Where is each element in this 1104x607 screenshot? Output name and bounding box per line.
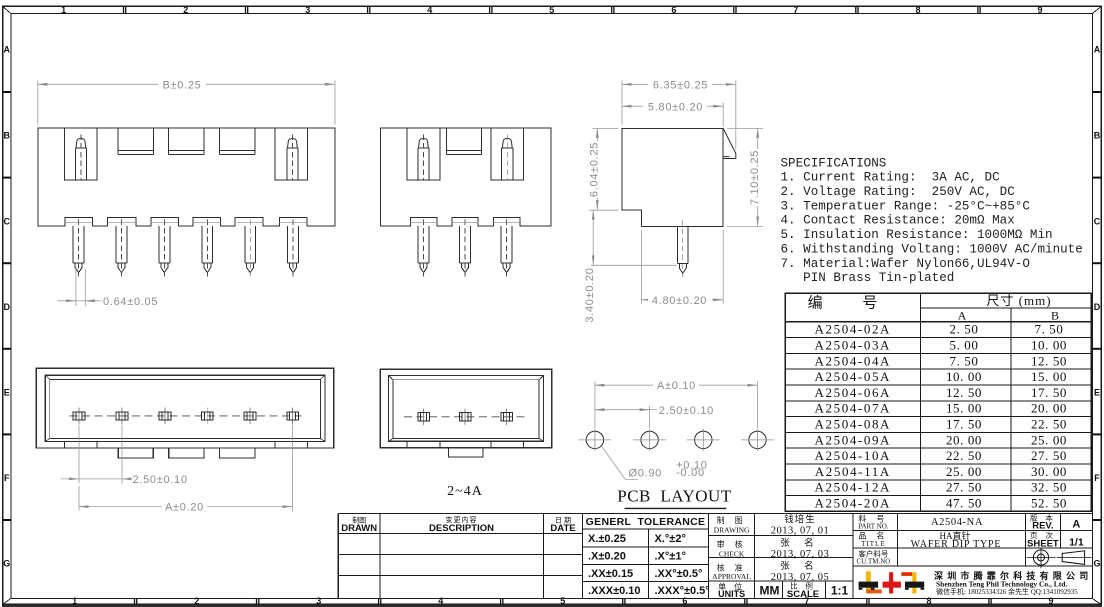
part-number section labels xyxy=(856,514,890,566)
svg-text:2. Voltage Rating: 250V AC, D: 2. Voltage Rating: 250V AC, DC xyxy=(781,185,1016,199)
svg-text:-0.00: -0.00 xyxy=(676,467,705,479)
svg-text:3. Temperatuer Range: -25°C~+8: 3. Temperatuer Range: -25°C~+85°C xyxy=(781,199,1031,213)
view 2 pins in slots xyxy=(418,135,429,181)
svg-text:B±0.25: B±0.25 xyxy=(163,80,202,92)
svg-text:编 号: 编 号 xyxy=(808,295,896,312)
svg-text:X.±0.25: X.±0.25 xyxy=(588,533,626,545)
svg-text:8: 8 xyxy=(915,5,920,15)
svg-text:6.35±0.25: 6.35±0.25 xyxy=(653,80,708,92)
svg-text:张 名: 张 名 xyxy=(780,537,819,549)
svg-text:A2504-03A: A2504-03A xyxy=(815,338,892,353)
dimension 3.40±0.20 (left vertical lower) xyxy=(591,210,677,265)
svg-text:DRAWN: DRAWN xyxy=(341,523,377,534)
svg-text:22. 50: 22. 50 xyxy=(946,448,982,463)
projection symbol cone xyxy=(1062,551,1084,565)
svg-text:52. 50: 52. 50 xyxy=(1031,496,1067,511)
svg-text:1/1: 1/1 xyxy=(1069,536,1084,548)
view 3 latch hook xyxy=(723,128,736,158)
svg-text:钱培生: 钱培生 xyxy=(784,514,816,526)
svg-text:A2504-06A: A2504-06A xyxy=(815,385,892,400)
svg-text:0.64±0.05: 0.64±0.05 xyxy=(103,296,158,308)
view 1 pin shoulder lines xyxy=(65,222,307,224)
view 5 pin cross-sections xyxy=(418,409,430,426)
svg-text:.XXX°±0.5°: .XXX°±0.5° xyxy=(655,585,710,597)
view 1 bottom pins xyxy=(73,219,84,276)
svg-text:A2504-08A: A2504-08A xyxy=(815,417,892,432)
svg-text:X.°±2°: X.°±2° xyxy=(655,533,686,545)
svg-text:PCB LAYOUT: PCB LAYOUT xyxy=(617,486,732,505)
svg-text:APPROVAL: APPROVAL xyxy=(712,572,751,581)
svg-text:2.50±0.10: 2.50±0.10 xyxy=(659,405,714,417)
svg-text:SHEET: SHEET xyxy=(1027,539,1059,550)
middle label column xyxy=(712,515,751,599)
svg-text:2~4A: 2~4A xyxy=(447,484,483,499)
svg-text:12. 50: 12. 50 xyxy=(1031,353,1067,368)
svg-text:CHECK: CHECK xyxy=(719,549,745,558)
dimension 7.10±0.25 (right vertical) xyxy=(727,128,763,226)
svg-text:5: 5 xyxy=(560,596,565,606)
svg-text:7. 50: 7. 50 xyxy=(950,353,979,368)
view 1: connector front view (6-pin) body xyxy=(38,128,335,226)
svg-text:A±0.10: A±0.10 xyxy=(657,380,696,392)
svg-text:32. 50: 32. 50 xyxy=(1031,480,1067,495)
dimension 2.50±0.10 (PCB) xyxy=(595,406,657,428)
svg-text:A±0.20: A±0.20 xyxy=(165,502,204,514)
svg-text:TITLE: TITLE xyxy=(861,540,885,548)
svg-text:20. 00: 20. 00 xyxy=(1031,401,1067,416)
svg-text:WAFER DIP TYPE: WAFER DIP TYPE xyxy=(911,539,1002,550)
svg-text:5. 00: 5. 00 xyxy=(950,338,979,353)
svg-text:1: 1 xyxy=(72,596,77,606)
svg-text:B: B xyxy=(1051,309,1059,323)
dimension 2.50±0.10 (view 4) xyxy=(61,425,132,484)
svg-text:B: B xyxy=(4,130,11,140)
dimension A±0.10 (PCB) xyxy=(595,382,758,429)
svg-text:A2504-09A: A2504-09A xyxy=(815,432,892,447)
svg-text:DESCRIPTION: DESCRIPTION xyxy=(429,523,494,534)
svg-text:B: B xyxy=(1094,130,1101,140)
svg-text:REV.: REV. xyxy=(1032,521,1053,532)
view 2 slot left xyxy=(407,128,440,180)
svg-text:15. 00: 15. 00 xyxy=(946,401,982,416)
svg-text:.X°±1°: .X°±1° xyxy=(655,551,686,563)
view 4 pin cross-sections xyxy=(73,408,85,425)
svg-text:4. Contact Resistance: 20mΩ Ma: 4. Contact Resistance: 20mΩ Max xyxy=(781,214,1015,228)
svg-text:A: A xyxy=(1072,518,1080,530)
svg-text:6.04±0.25: 6.04±0.25 xyxy=(589,142,601,197)
svg-text:微信手机: 18025334326 余先生 QQ:13410: 微信手机: 18025334326 余先生 QQ:1341092935 xyxy=(936,587,1078,596)
view 1 slot left xyxy=(65,128,98,180)
dimension 5.80±0.20 xyxy=(622,103,723,127)
svg-text:A2504-10A: A2504-10A xyxy=(815,448,892,463)
svg-text:A2504-02A: A2504-02A xyxy=(815,322,892,337)
tolerance values xyxy=(588,533,710,597)
part-number values xyxy=(911,517,1002,550)
svg-text:A2504-12A: A2504-12A xyxy=(815,480,892,495)
view 2 slot right xyxy=(491,128,524,180)
svg-text:9: 9 xyxy=(1048,596,1053,606)
svg-text:25. 00: 25. 00 xyxy=(946,464,982,479)
names and dates xyxy=(771,514,830,584)
title block grid xyxy=(338,514,1092,599)
svg-text:1. Current Rating: 3A AC, DC: 1. Current Rating: 3A AC, DC xyxy=(781,171,1001,185)
svg-text:7. Material:Wafer Nylon66,UL94: 7. Material:Wafer Nylon66,UL94V-O xyxy=(781,257,1030,271)
svg-text:.XX°±0.5°: .XX°±0.5° xyxy=(655,568,703,580)
svg-text:7: 7 xyxy=(793,5,798,15)
svg-text:A2504-04A: A2504-04A xyxy=(815,353,892,368)
svg-text:7.10±0.25: 7.10±0.25 xyxy=(749,150,761,205)
svg-text:5: 5 xyxy=(549,5,554,15)
svg-text:PIN Brass Tin-plated: PIN Brass Tin-plated xyxy=(781,271,955,285)
view 1 slot right xyxy=(275,128,308,180)
svg-text:.XX±0.15: .XX±0.15 xyxy=(588,568,633,580)
svg-text:15. 00: 15. 00 xyxy=(1031,369,1067,384)
svg-text:3: 3 xyxy=(316,596,321,606)
svg-text:CU.TM.NO: CU.TM.NO xyxy=(856,558,890,566)
svg-text:UNITS: UNITS xyxy=(718,589,745,599)
dimension B±0.25 xyxy=(38,81,335,125)
svg-text:2. 50: 2. 50 xyxy=(950,322,979,337)
company logo xyxy=(859,571,925,593)
svg-text:27. 50: 27. 50 xyxy=(1031,448,1067,463)
svg-text:PART NO.: PART NO. xyxy=(858,523,889,531)
svg-text:SPECIFICATIONS: SPECIFICATIONS xyxy=(781,156,887,170)
svg-text:1: 1 xyxy=(61,5,66,15)
svg-text:尺寸 (mm): 尺寸 (mm) xyxy=(986,293,1051,308)
units scale row xyxy=(760,581,849,600)
svg-text:6: 6 xyxy=(682,596,687,606)
svg-text:A: A xyxy=(4,44,11,54)
svg-text:10. 00: 10. 00 xyxy=(1031,338,1067,353)
svg-text:3: 3 xyxy=(305,5,310,15)
hole diameter leader Ø0.90 xyxy=(602,447,638,480)
svg-text:A2504-07A: A2504-07A xyxy=(815,401,892,416)
svg-text:品 名: 品 名 xyxy=(858,531,888,541)
svg-text:张 名: 张 名 xyxy=(780,560,819,572)
svg-text:2013, 07, 03: 2013, 07, 03 xyxy=(771,549,830,560)
svg-text:D: D xyxy=(4,302,11,312)
svg-text:.X±0.20: .X±0.20 xyxy=(588,551,626,563)
svg-text:1:1: 1:1 xyxy=(831,583,849,597)
svg-text:5. Insulation Resistance: 1000: 5. Insulation Resistance: 1000MΩ Min xyxy=(781,228,1053,242)
svg-text:A2504-NA: A2504-NA xyxy=(931,517,983,528)
svg-text:A2504-11A: A2504-11A xyxy=(815,464,891,479)
svg-text:2.50±0.10: 2.50±0.10 xyxy=(133,474,188,486)
svg-text:F: F xyxy=(1094,473,1100,483)
rev / sheet labels xyxy=(1027,513,1084,550)
view 3 pin xyxy=(677,220,688,277)
PCB layout holes xyxy=(586,431,766,448)
svg-text:GENERL TOLERANCE: GENERL TOLERANCE xyxy=(586,516,706,528)
dimension A±0.20 (view 4) xyxy=(79,425,293,512)
svg-text:A: A xyxy=(1094,44,1101,54)
SPECIFICATIONS text block xyxy=(781,156,1083,285)
svg-text:6. Withstanding Voltang: 1000V: 6. Withstanding Voltang: 1000V AC/minute xyxy=(781,242,1083,256)
svg-text:3.40±0.20: 3.40±0.20 xyxy=(584,267,596,322)
svg-text:C: C xyxy=(1094,216,1101,226)
svg-text:MM: MM xyxy=(760,583,780,597)
svg-text:6: 6 xyxy=(671,5,676,15)
view 5: bottom view (3-pin) xyxy=(380,369,551,456)
svg-text:C: C xyxy=(4,216,11,226)
svg-text:8: 8 xyxy=(926,596,931,606)
svg-text:20. 00: 20. 00 xyxy=(946,432,982,447)
svg-text:2: 2 xyxy=(183,5,188,15)
view 1 latch windows xyxy=(118,128,153,155)
svg-text:4: 4 xyxy=(438,596,443,606)
svg-text:5.80±0.20: 5.80±0.20 xyxy=(648,102,703,114)
view 2 latch window xyxy=(446,128,481,155)
svg-text:22. 50: 22. 50 xyxy=(1031,417,1067,432)
view 2: connector front view (3-pin) body xyxy=(381,128,551,226)
svg-text:A2504-05A: A2504-05A xyxy=(815,369,892,384)
svg-text:A2504-20A: A2504-20A xyxy=(815,496,892,511)
view 4: bottom view (6-pin) xyxy=(36,368,333,457)
svg-text:DRAWING: DRAWING xyxy=(714,525,750,534)
svg-text:DATE: DATE xyxy=(550,523,575,534)
third-angle projection symbol circle xyxy=(1027,548,1092,568)
svg-text:审 核: 审 核 xyxy=(717,539,747,549)
dimension 6.04±0.25 (left vertical) xyxy=(589,128,619,210)
svg-text:7. 50: 7. 50 xyxy=(1035,322,1064,337)
view 4 center dashed line xyxy=(70,415,302,417)
svg-text:D: D xyxy=(1094,302,1101,312)
svg-text:G: G xyxy=(1093,558,1100,568)
svg-text:30. 00: 30. 00 xyxy=(1031,464,1067,479)
svg-text:E: E xyxy=(4,387,10,397)
company name xyxy=(934,570,1092,596)
svg-text:2: 2 xyxy=(194,596,199,606)
view 1 pins in slots xyxy=(75,135,86,181)
svg-text:F: F xyxy=(4,473,10,483)
svg-text:G: G xyxy=(3,558,10,568)
svg-text:10. 00: 10. 00 xyxy=(946,369,982,384)
svg-text:E: E xyxy=(1094,387,1100,397)
svg-text:27. 50: 27. 50 xyxy=(946,480,982,495)
svg-text:2013, 07, 01: 2013, 07, 01 xyxy=(771,526,830,537)
svg-text:12. 50: 12. 50 xyxy=(946,385,982,400)
dimension 6.35±0.25 xyxy=(622,81,736,150)
svg-text:.XXX±0.10: .XXX±0.10 xyxy=(588,585,641,597)
svg-text:Ø0.90: Ø0.90 xyxy=(629,468,662,480)
svg-text:17. 50: 17. 50 xyxy=(946,417,982,432)
svg-text:制 图: 制 图 xyxy=(717,515,747,525)
svg-text:17. 50: 17. 50 xyxy=(1031,385,1067,400)
svg-text:A: A xyxy=(958,309,967,323)
svg-text:9: 9 xyxy=(1037,5,1042,15)
dimension 4.80±0.20 xyxy=(642,230,724,304)
title block left headers xyxy=(341,515,705,534)
svg-text:SCALE: SCALE xyxy=(787,589,819,600)
view 3: side view body xyxy=(622,128,723,226)
svg-text:4: 4 xyxy=(427,5,432,15)
part number / dimensions table xyxy=(785,293,1091,511)
dimension 0.64±0.05 xyxy=(58,267,102,306)
svg-text:25. 00: 25. 00 xyxy=(1031,432,1067,447)
svg-text:4.80±0.20: 4.80±0.20 xyxy=(652,295,707,307)
svg-text:47. 50: 47. 50 xyxy=(946,496,982,511)
view 2 bottom pins xyxy=(418,219,429,276)
